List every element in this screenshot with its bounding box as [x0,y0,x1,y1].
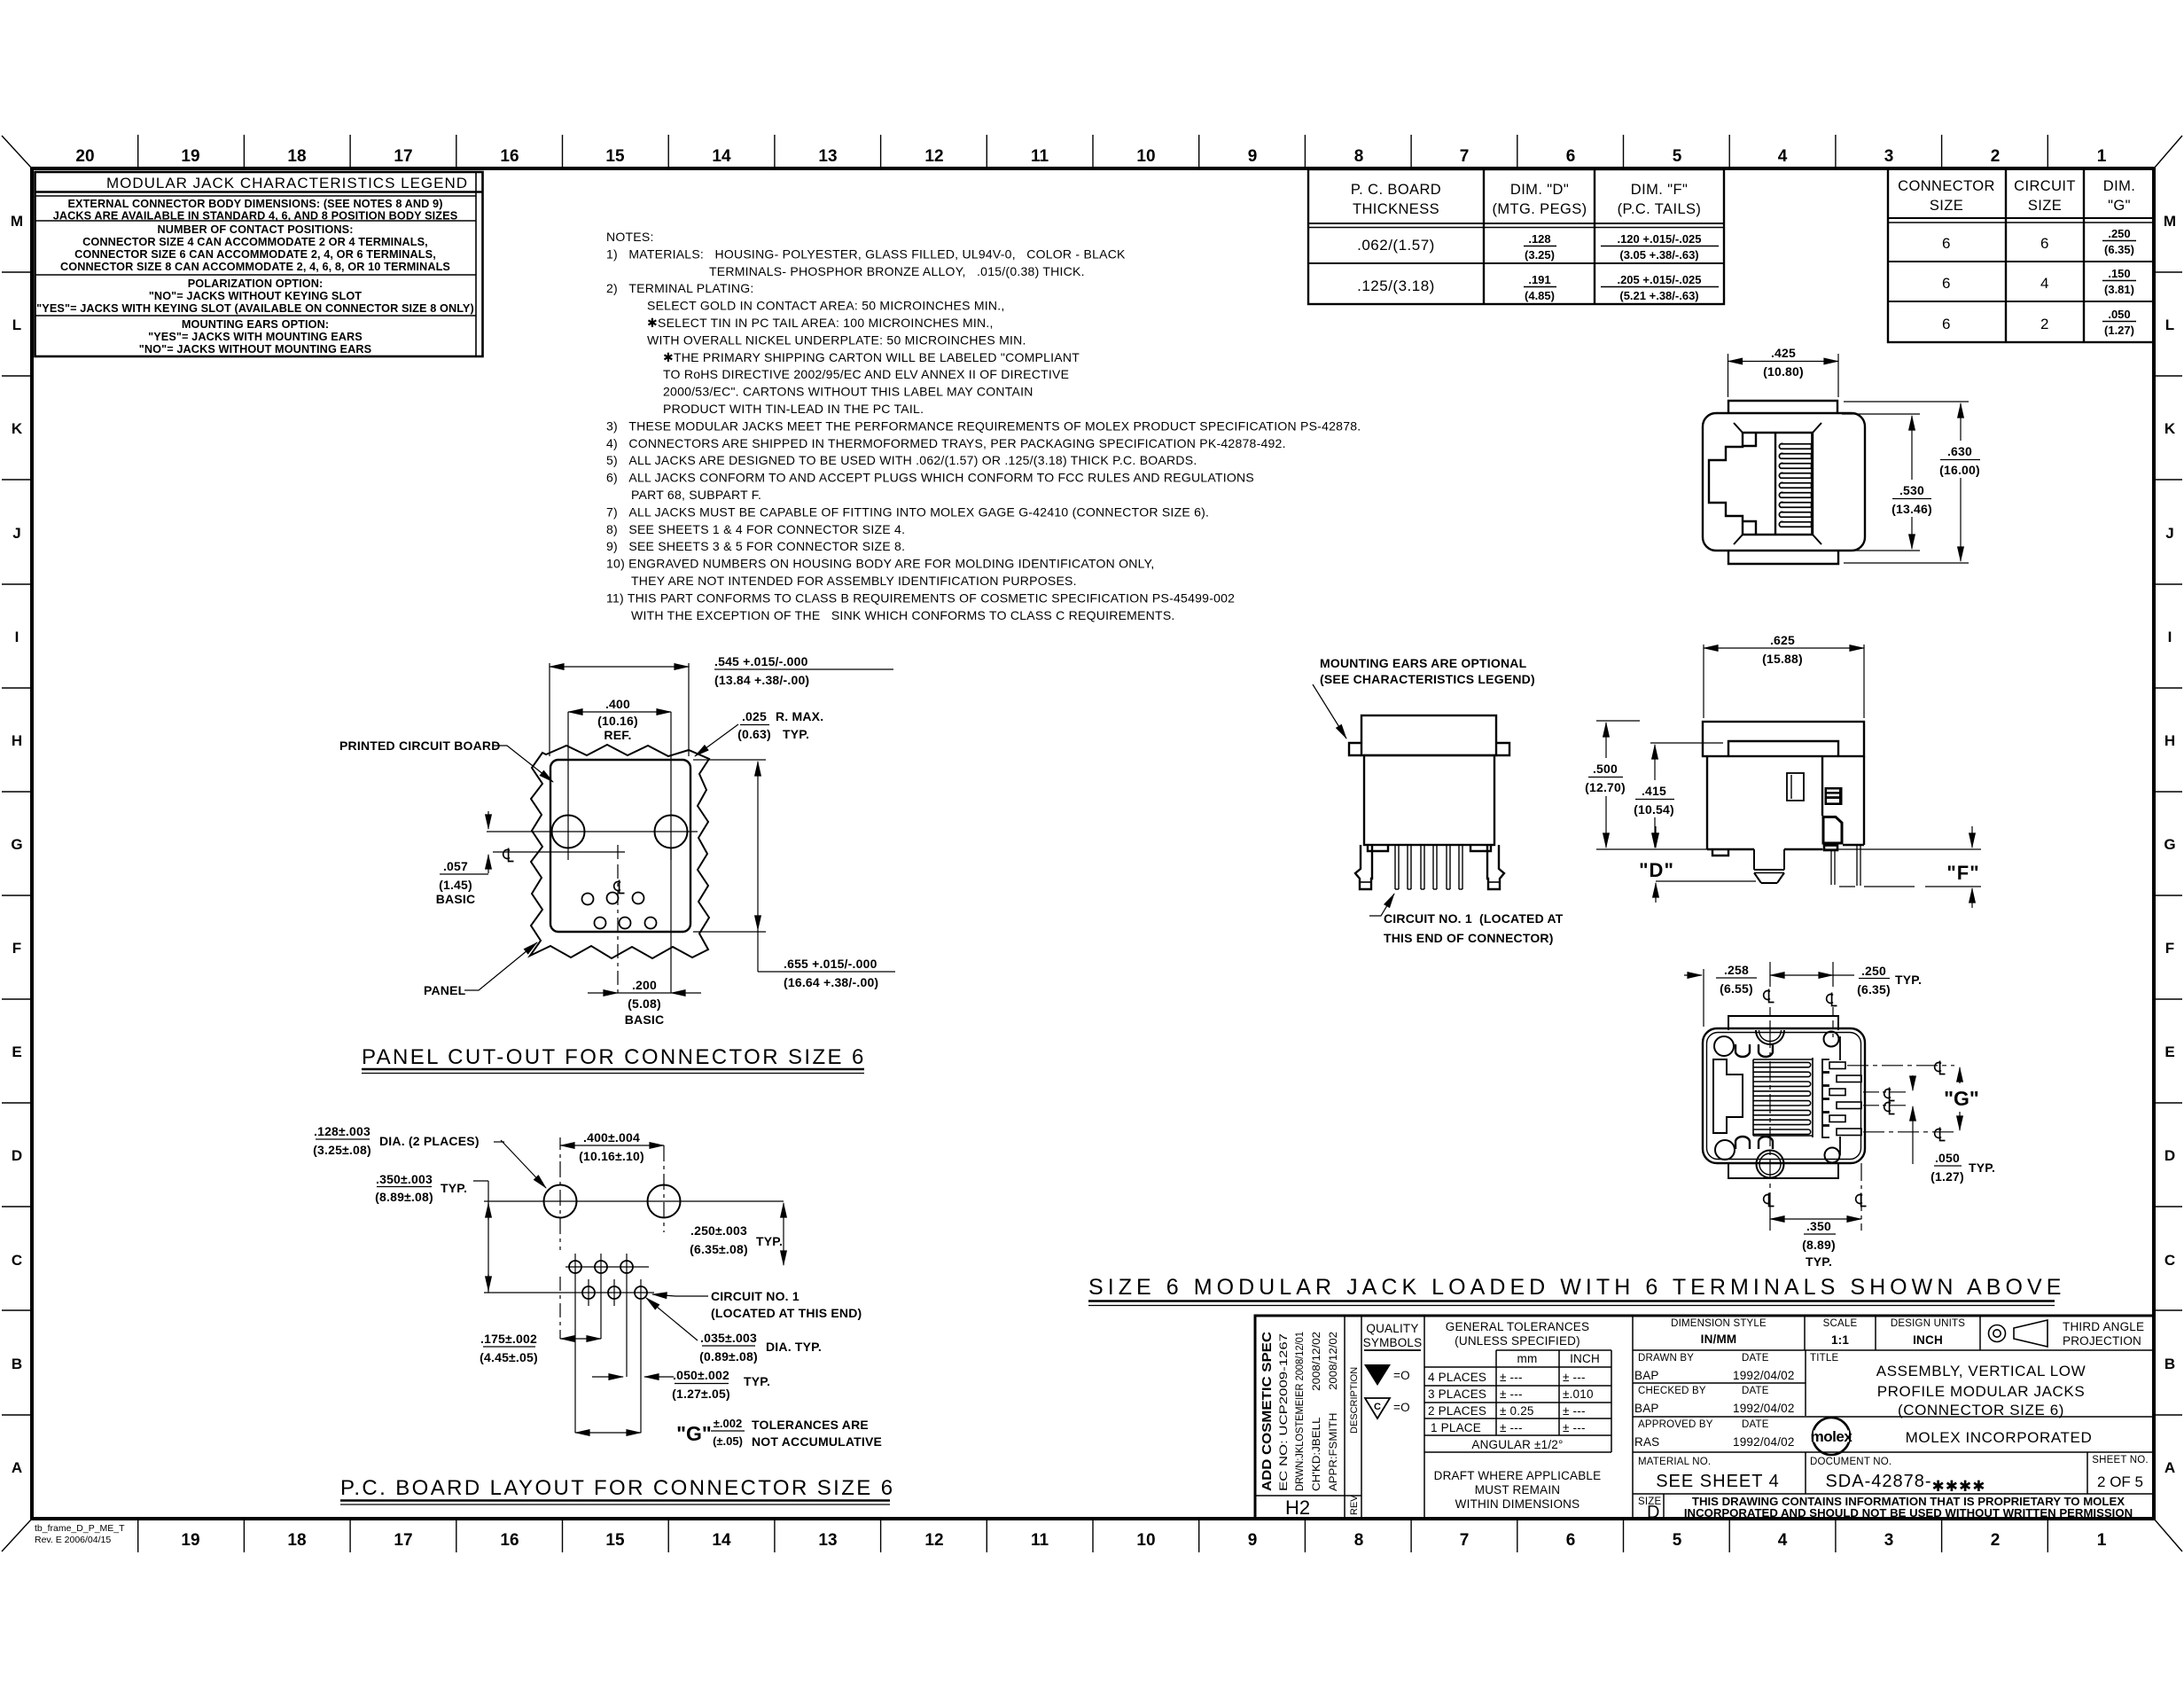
svg-text:8: 8 [1354,147,1364,166]
quality triangle outline [1365,1398,1390,1418]
svg-text:12: 12 [924,1531,943,1550]
left mounting peg [1355,845,1372,889]
dimension .250 typ rear [1770,975,1890,979]
svg-text:G: G [11,836,22,853]
svg-text:(10.80): (10.80) [1763,364,1804,379]
svg-text:(10.16): (10.16) [597,714,638,728]
svg-text:I: I [15,629,19,645]
svg-text:THEY ARE NOT INTENDED FOR ASSE: THEY ARE NOT INTENDED FOR ASSEMBLY IDENT… [631,574,1077,588]
svg-text:4: 4 [1778,147,1788,166]
svg-text:TYP.: TYP. [756,1234,783,1248]
svg-text:11: 11 [1031,1531,1049,1550]
terminal pads top row [569,1261,647,1299]
svg-text:MATERIAL NO.: MATERIAL NO. [1638,1457,1711,1467]
svg-text:16: 16 [500,147,519,166]
right mounting ear [1496,743,1509,755]
dimension .545 cutout width [550,663,893,756]
svg-text:7: 7 [1460,147,1470,166]
leader printed circuit board [493,746,553,782]
svg-text:MUST REMAIN: MUST REMAIN [1475,1483,1560,1497]
svg-text:2) TERMINAL PLATING:: 2) TERMINAL PLATING: [606,281,754,295]
svg-text:PRODUCT WITH TIN-LEAD IN THE P: PRODUCT WITH TIN-LEAD IN THE PC TAIL. [663,402,924,416]
dimension .655 cutout height [693,760,895,972]
svg-text:.655 +.015/-.000: .655 +.015/-.000 [784,957,877,971]
opening notch bottom-left [1743,521,1756,535]
svg-text:MODULAR JACK CHARACTERISTICS L: MODULAR JACK CHARACTERISTICS LEGEND [106,175,468,191]
svg-text:(SEE CHARACTERISTICS LEGEND): (SEE CHARACTERISTICS LEGEND) [1320,672,1535,686]
svg-text:.530: .530 [1899,483,1924,497]
svg-text:3) THESE MODULAR JACKS MEET: 3) THESE MODULAR JACKS MEET THE PERFORMA… [606,418,1361,433]
svg-text:2000/53/EC". CARTONS WITHOUT T: 2000/53/EC". CARTONS WITHOUT THIS LABEL … [663,385,1033,399]
svg-text:CIRCUIT NO. 1 (LOCATED AT: CIRCUIT NO. 1 (LOCATED AT [1384,911,1564,926]
svg-text:MOLEX INCORPORATED: MOLEX INCORPORATED [1906,1429,2093,1446]
dimension .057 BASIC offset [440,811,488,874]
tolerance sub-table [1496,1349,1611,1351]
svg-text:±.002: ±.002 [714,1417,742,1430]
svg-text:DRWN:JKLOSTEMEIER 2008/12/01: DRWN:JKLOSTEMEIER 2008/12/01 [1295,1332,1306,1491]
svg-text:TERMINALS- PHOSPHOR BRONZE ALL: TERMINALS- PHOSPHOR BRONZE ALLOY, .015/(… [709,264,1085,278]
svg-text:(3.05 +.38/-.63): (3.05 +.38/-.63) [1619,248,1698,262]
svg-text:(5.21 +.38/-.63): (5.21 +.38/-.63) [1619,289,1698,302]
svg-text:(UNLESS SPECIFIED): (UNLESS SPECIFIED) [1455,1334,1580,1348]
dimension .500 [1588,721,1640,848]
svg-text:(1.27±.05): (1.27±.05) [672,1387,730,1401]
svg-text:P.C. BOARD LAYOUT FOR CONNECTO: P.C. BOARD LAYOUT FOR CONNECTOR SIZE 6 [340,1476,895,1500]
dimension .630 overall height [1844,402,1980,563]
svg-text:TYP.: TYP. [1806,1254,1832,1269]
corner diagonal bottom-right [2154,1519,2182,1551]
svg-text:10: 10 [1136,147,1155,166]
side2 ear plate [1728,741,1838,756]
svg-text:G: G [2164,836,2175,853]
svg-text:17: 17 [394,147,412,166]
svg-text:DATE: DATE [1742,1386,1769,1396]
svg-text:10) ENGRAVED NUMBERS ON HOUSIN: 10) ENGRAVED NUMBERS ON HOUSING BODY ARE… [606,557,1155,571]
svg-text:6: 6 [1942,235,1951,252]
svg-text:TOLERANCES ARE: TOLERANCES ARE [752,1418,869,1432]
svg-text:H: H [2164,732,2175,749]
svg-text:DESCRIPTION: DESCRIPTION [1349,1367,1360,1434]
svg-text:D: D [1647,1503,1659,1522]
svg-text:INCH: INCH [1913,1333,1943,1347]
svg-text:.400: .400 [605,697,630,711]
svg-text:.050: .050 [1935,1151,1960,1165]
svg-text:.025: .025 [742,709,767,723]
panel cut-out title [362,1045,866,1069]
svg-text:3: 3 [1884,1531,1894,1550]
svg-text:MOUNTING EARS OPTION:: MOUNTING EARS OPTION: [182,318,329,331]
frame stamp text [35,1523,125,1545]
svg-text:15: 15 [605,147,625,166]
svg-text:D: D [12,1147,22,1164]
side2 pc tail pins [1831,846,1860,886]
svg-text:INCORPORATED AND SHOULD NOT BE: INCORPORATED AND SHOULD NOT BE USED WITH… [1684,1506,2133,1520]
svg-text:L: L [2165,316,2174,333]
svg-text:(0.89±.08): (0.89±.08) [699,1349,758,1364]
svg-text:5: 5 [1673,1531,1682,1550]
svg-text:DIM. "D": DIM. "D" [1510,182,1569,198]
quality symbols cell [1363,1322,1423,1349]
svg-text:CONNECTOR SIZE 8 CAN ACCOMMODA: CONNECTOR SIZE 8 CAN ACCOMMODATE 2, 4, 6… [60,261,450,273]
svg-text:8: 8 [1354,1531,1364,1550]
svg-text:SHEET NO.: SHEET NO. [2092,1455,2149,1465]
svg-text:SIZE: SIZE [1930,198,1963,214]
svg-text:DESIGN UNITS: DESIGN UNITS [1891,1318,1965,1329]
svg-text:6: 6 [1566,147,1576,166]
svg-text:INCH: INCH [1570,1352,1600,1365]
svg-text:TYP.: TYP. [1895,973,1922,987]
svg-text:4) CONNECTORS ARE SHIPPED IN: 4) CONNECTORS ARE SHIPPED IN THERMOFORME… [606,436,1286,450]
svg-text:WITHIN DIMENSIONS: WITHIN DIMENSIONS [1455,1497,1580,1511]
svg-text:ANGULAR ±1/2°: ANGULAR ±1/2° [1471,1438,1563,1451]
svg-text:2: 2 [1991,1531,2001,1550]
svg-text:1992/04/02: 1992/04/02 [1733,1435,1795,1449]
svg-text:(1.27): (1.27) [1930,1169,1964,1184]
svg-text:DIM. "F": DIM. "F" [1631,182,1688,198]
svg-text:ADD COSMETIC SPEC: ADD COSMETIC SPEC [1260,1332,1275,1491]
right side view (D/F) [1703,722,1864,856]
svg-text:13: 13 [818,147,837,166]
svg-text:.128±.003: .128±.003 [314,1124,370,1138]
connector size table [1888,168,2154,342]
dimension G rear [1959,1067,1961,1130]
rear centerlines vertical [1770,962,1861,1231]
svg-text:± ---: ± --- [1563,1421,1586,1434]
svg-text:DATE: DATE [1742,1353,1769,1364]
svg-text:Rev. E 2006/04/15: Rev. E 2006/04/15 [35,1535,111,1545]
caption size 6 modular jack [1088,1275,2065,1300]
opening notch top-left [1743,433,1756,446]
dimension G pcb [575,1431,745,1433]
svg-text:19: 19 [181,1531,199,1550]
svg-text:SYMBOLS: SYMBOLS [1363,1336,1423,1349]
svg-text:A: A [12,1459,22,1476]
svg-text:PROFILE MODULAR JACKS: PROFILE MODULAR JACKS [1877,1383,2086,1400]
svg-text:.250: .250 [2108,227,2130,240]
svg-text:1992/04/02: 1992/04/02 [1733,1402,1795,1415]
svg-text:H2: H2 [1285,1497,1310,1519]
svg-text:.425: .425 [1771,346,1796,360]
board surface line [1596,848,1981,850]
svg-text:E: E [12,1043,21,1060]
front view: modular jack face [1703,401,1865,564]
rear top peg arcs [1756,1030,1784,1044]
svg-text:THIRD ANGLE: THIRD ANGLE [2063,1320,2144,1333]
svg-text:(10.54): (10.54) [1634,802,1674,817]
svg-text:14: 14 [712,1531,731,1550]
svg-text:TITLE: TITLE [1810,1353,1838,1364]
dimension .400 REF hole spacing [568,712,671,811]
svg-text:10: 10 [1136,1531,1155,1550]
svg-text:.545 +.015/-.000: .545 +.015/-.000 [714,654,808,668]
right mounting peg [1487,845,1504,889]
svg-text:J: J [2165,525,2173,542]
svg-text:DATE: DATE [1742,1419,1769,1430]
svg-text:3: 3 [1884,147,1894,166]
svg-text:E: E [2164,1043,2174,1060]
svg-text:1: 1 [2097,1531,2107,1550]
svg-text:(0.63): (0.63) [737,727,771,741]
svg-text:(3.81): (3.81) [2104,283,2134,296]
dimension D [1656,826,1756,903]
svg-text:NUMBER OF CONTACT POSITIONS:: NUMBER OF CONTACT POSITIONS: [157,223,353,236]
svg-text:.191: .191 [1528,273,1550,286]
pcb layout title [340,1476,895,1500]
svg-text:H: H [12,732,22,749]
svg-text:6: 6 [2040,235,2049,252]
rear keyway opening [1713,1059,1743,1133]
svg-text:=O: =O [1393,1369,1410,1382]
side2 latch hook [1823,817,1842,844]
svg-text:CONNECTOR SIZE 4 CAN ACCOMMODA: CONNECTOR SIZE 4 CAN ACCOMMODATE 2 OR 4 … [82,236,428,248]
svg-text:DOCUMENT NO.: DOCUMENT NO. [1810,1457,1891,1467]
front view contact comb [1779,434,1812,534]
svg-text:.062/(1.57): .062/(1.57) [1357,237,1435,254]
svg-text:PANEL: PANEL [424,983,466,997]
svg-text:A: A [2164,1459,2175,1476]
corner diagonal top-right [2154,136,2182,168]
svg-text:8) SEE SHEETS 1 & 4 FOR CONN: 8) SEE SHEETS 1 & 4 FOR CONNECTOR SIZE 4… [606,522,905,536]
svg-text:"YES"= JACKS WITH KEYING SLOT: "YES"= JACKS WITH KEYING SLOT (AVAILABLE… [36,302,474,315]
svg-text:P. C. BOARD: P. C. BOARD [1351,182,1441,198]
svg-text:DIA. (2 PLACES): DIA. (2 PLACES) [379,1134,480,1148]
svg-text:± ---: ± --- [1500,1371,1523,1384]
svg-text:(6.55): (6.55) [1720,981,1753,996]
svg-text:"NO"= JACKS WITHOUT KEYING SLO: "NO"= JACKS WITHOUT KEYING SLOT [149,290,362,302]
svg-text:16: 16 [500,1531,519,1550]
rear small u marks [1735,1044,1773,1149]
side2 center peg [1754,849,1784,883]
mounting holes [552,816,688,848]
svg-text:CIRCUIT NO. 1: CIRCUIT NO. 1 [711,1289,799,1303]
pc board thickness table [1308,169,1724,304]
svg-text:.128: .128 [1528,232,1550,246]
svg-text:ASSEMBLY, VERTICAL LOW: ASSEMBLY, VERTICAL LOW [1876,1363,2086,1379]
left side view with mounting ears [1349,715,1509,889]
svg-text:C: C [2164,1252,2175,1269]
svg-text:.035±.003: .035±.003 [700,1331,757,1345]
bottom right notch [1470,845,1491,851]
svg-text:DIA. TYP.: DIA. TYP. [766,1340,822,1354]
corner diagonal bottom-left [2,1519,32,1551]
svg-text:6) ALL JACKS CONFORM TO AND: 6) ALL JACKS CONFORM TO AND ACCEPT PLUGS… [606,471,1254,485]
svg-text:19: 19 [181,147,199,166]
svg-text:BASIC: BASIC [436,892,476,906]
svg-text:.625: .625 [1770,633,1795,647]
svg-text:1:1: 1:1 [1831,1333,1849,1347]
svg-text:2: 2 [2040,316,2049,332]
front view jack opening with keyway [1709,433,1813,535]
hole centerlines [487,810,698,860]
svg-text:9: 9 [1248,147,1258,166]
svg-text:.250: .250 [1861,964,1886,978]
svg-text:B: B [12,1356,22,1372]
dimension .050 typ pcb [592,1377,729,1384]
svg-text:CONNECTOR SIZE 6 CAN ACCOMMODA: CONNECTOR SIZE 6 CAN ACCOMMODATE 2, 4, O… [74,248,436,261]
svg-text:9: 9 [1248,1531,1258,1550]
svg-text:M: M [2164,213,2176,230]
pcb mounting holes [544,1185,681,1218]
svg-text:WITH OVERALL NICKEL UNDERPLATE: WITH OVERALL NICKEL UNDERPLATE: 50 MICRO… [647,332,1026,347]
svg-text:5: 5 [1673,147,1682,166]
rear behind plate [1728,1016,1838,1178]
svg-text:APPROVED BY: APPROVED BY [1638,1419,1713,1430]
leader panel [464,942,537,990]
right section lines [1804,1316,1806,1350]
svg-text:R. MAX.: R. MAX. [776,709,823,723]
svg-text:(13.46): (13.46) [1891,502,1932,516]
svg-text:BASIC: BASIC [625,1012,665,1027]
svg-text:NOTES:: NOTES: [606,230,654,244]
side2 window [1787,773,1804,801]
svg-text:PRINTED CIRCUIT BOARD: PRINTED CIRCUIT BOARD [339,738,501,753]
svg-text:CONNECTOR: CONNECTOR [1898,178,1995,194]
svg-text:"NO"= JACKS WITHOUT MOUNTING E: "NO"= JACKS WITHOUT MOUNTING EARS [139,343,371,356]
svg-text:.630: .630 [1947,444,1972,458]
svg-text:K: K [2164,420,2176,437]
rear bottom peg circle [1757,1151,1784,1178]
svg-text:SEE SHEET 4: SEE SHEET 4 [1656,1472,1780,1491]
quality triangle filled [1364,1364,1391,1386]
svg-text:.120 +.015/-.025: .120 +.015/-.025 [1617,232,1701,246]
svg-text:L: L [12,316,21,333]
svg-text:1 PLACE: 1 PLACE [1431,1421,1481,1434]
svg-text:THICKNESS: THICKNESS [1353,201,1439,217]
drawn/checked/approved [1634,1353,2086,1449]
svg-text:"G": "G" [1944,1087,1979,1110]
svg-text:NOT ACCUMULATIVE: NOT ACCUMULATIVE [752,1434,882,1449]
side view top cap [1361,715,1496,755]
svg-text:DRAFT WHERE APPLICABLE: DRAFT WHERE APPLICABLE [1434,1469,1602,1482]
svg-text:BAP: BAP [1634,1402,1659,1415]
svg-text:EC NO: UCP2009-1267: EC NO: UCP2009-1267 [1279,1333,1290,1491]
svg-text:K: K [12,420,23,437]
rear contact comb [1753,1058,1813,1137]
material / document / sheet [1638,1455,2149,1522]
svg-text:(15.88): (15.88) [1762,652,1803,666]
svg-text:SIZE: SIZE [2028,198,2062,214]
leader mounting ears note [1313,684,1346,738]
svg-text:mm: mm [1517,1352,1538,1365]
terminal holes top row [582,893,657,929]
svg-text:5) ALL JACKS ARE DESIGNED TO: 5) ALL JACKS ARE DESIGNED TO BE USED WIT… [606,453,1197,467]
svg-text:THIS END OF CONNECTOR): THIS END OF CONNECTOR) [1384,931,1554,945]
front view body [1703,413,1865,551]
svg-text:(16.64 +.38/-.00): (16.64 +.38/-.00) [784,975,878,989]
svg-text:11: 11 [1031,147,1049,166]
svg-text:.150: .150 [2108,267,2130,280]
bottom left notch [1368,845,1388,851]
svg-text:BAP: BAP [1634,1369,1659,1382]
rear terminal stubs [1829,1062,1861,1136]
panel zigzag outline [530,745,709,958]
svg-text:(12.70): (12.70) [1585,780,1626,794]
svg-text:6: 6 [1942,316,1951,332]
svg-text:DRAWN BY: DRAWN BY [1638,1353,1694,1364]
svg-text:.250±.003: .250±.003 [690,1223,747,1238]
svg-text:2: 2 [1991,147,2001,166]
svg-text:.057: .057 [443,859,468,873]
svg-text:(6.35): (6.35) [2104,243,2134,256]
molex logo [1811,1418,1853,1455]
title block [1255,1316,2154,1519]
svg-text:M: M [11,213,23,230]
svg-text:CIRCUIT: CIRCUIT [2014,178,2076,194]
leader .128 dia [316,1139,546,1188]
svg-text:REF.: REF. [604,728,631,742]
pad crosses [484,1254,654,1433]
svg-text:TYP.: TYP. [1969,1160,1995,1175]
svg-text:13: 13 [818,1531,837,1550]
side2 right column [1863,756,1865,845]
svg-text:.500: .500 [1593,762,1618,776]
svg-text:CHECKED BY: CHECKED BY [1638,1386,1706,1396]
svg-text:3 PLACES: 3 PLACES [1428,1387,1486,1401]
side2 body [1706,756,1708,849]
svg-text:(3.25): (3.25) [1525,248,1555,262]
svg-text:WITH THE EXCEPTION OF THE SI: WITH THE EXCEPTION OF THE SINK WHICH CON… [631,608,1175,622]
dimension .258 [1684,969,1757,1027]
svg-text:6: 6 [1566,1531,1576,1550]
corner diagonal top-left [2,136,32,168]
svg-text:(4.85): (4.85) [1525,289,1555,302]
notes text block [606,230,1361,622]
svg-text:tb_frame_D_P_ME_T: tb_frame_D_P_ME_T [35,1523,125,1534]
dimension .350 typ rear [1770,1219,1861,1234]
svg-text:± ---: ± --- [1500,1387,1523,1401]
front view bottom tab [1728,551,1838,564]
side2 left foot [1712,849,1728,856]
leader circuit no 1 pcb [652,1294,708,1296]
svg-text:(16.00): (16.00) [1939,463,1980,477]
svg-text:SELECT GOLD IN CONTACT AREA: 5: SELECT GOLD IN CONTACT AREA: 50 MICROINC… [647,299,1005,313]
svg-text:MOUNTING EARS ARE OPTIONAL: MOUNTING EARS ARE OPTIONAL [1320,656,1527,670]
side2 top cap [1703,722,1864,756]
dimension F [1839,826,1981,908]
svg-text:(8.89): (8.89) [1802,1238,1836,1252]
svg-text:6: 6 [1942,275,1951,292]
svg-text:SIZE 6 MODULAR JACK LOADED WIT: SIZE 6 MODULAR JACK LOADED WITH 6 TERMIN… [1088,1275,2065,1300]
leader .035 dia [646,1298,755,1346]
svg-text:4: 4 [2040,275,2049,292]
dimension .530 body height [1842,414,1931,551]
svg-text:(MTG. PEGS): (MTG. PEGS) [1492,201,1587,217]
rear terminal wall [1822,1036,1840,1155]
dimension .425 front width [1728,354,1839,397]
svg-text:F: F [12,940,21,957]
front view top tab [1728,401,1837,413]
svg-text:I: I [2168,629,2172,645]
svg-text:PANEL CUT-OUT FOR CONNECTOR SI: PANEL CUT-OUT FOR CONNECTOR SIZE 6 [362,1045,866,1069]
svg-text:F: F [2165,940,2174,957]
dimension .250 typ [783,1203,784,1265]
svg-text:POLARIZATION OPTION:: POLARIZATION OPTION: [188,277,324,290]
svg-text:SCALE: SCALE [1823,1318,1858,1329]
svg-text:✱SELECT TIN IN PC TAIL AREA: 1: ✱SELECT TIN IN PC TAIL AREA: 100 MICROIN… [647,316,994,330]
svg-text:(LOCATED AT THIS END): (LOCATED AT THIS END) [711,1306,862,1320]
svg-text:.200: .200 [632,978,657,992]
dimension style cell [1671,1318,2144,1348]
svg-text:(5.08): (5.08) [628,996,661,1011]
left mounting ear [1349,743,1361,755]
svg-text:18: 18 [287,1531,306,1550]
svg-text:D: D [2164,1147,2175,1164]
opening divider [1774,433,1776,535]
svg-text:(6.35±.08): (6.35±.08) [690,1242,748,1256]
border frame [32,168,2154,1519]
svg-text:9) SEE SHEETS 3 & 5 FOR CONN: 9) SEE SHEETS 3 & 5 FOR CONNECTOR SIZE 8… [606,539,905,553]
connector centerline cross [493,845,671,993]
